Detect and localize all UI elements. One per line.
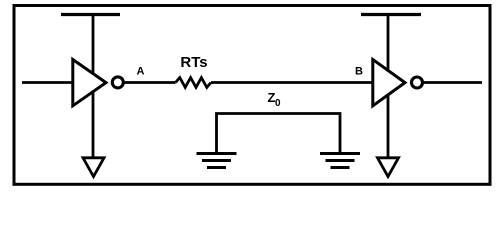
svg-text:A: A [137,66,145,78]
svg-text:RTs: RTs [180,54,207,71]
svg-text:B: B [355,66,363,78]
svg-text:0: 0 [275,98,281,109]
